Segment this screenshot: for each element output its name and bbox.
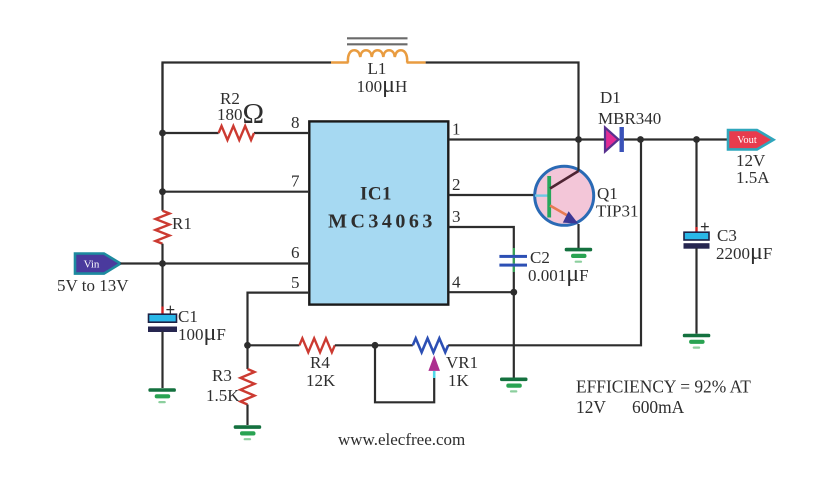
label 100uF <box>178 320 226 346</box>
capacitor C1 <box>149 300 177 332</box>
label D1 <box>600 88 621 107</box>
label 100uH <box>357 72 408 98</box>
label VR1 <box>446 353 478 372</box>
svg-text:5: 5 <box>291 273 300 292</box>
label C2 <box>530 248 550 267</box>
ground (C3) <box>683 334 711 349</box>
wire pin 7 <box>163 191 309 193</box>
svg-text:R3: R3 <box>212 366 232 385</box>
wire C2 to pin4 node <box>513 272 515 292</box>
svg-text:MC34063: MC34063 <box>328 211 436 233</box>
pin number 3 <box>452 207 461 226</box>
wire R1 to C1 <box>161 244 163 307</box>
wire pin4 node to ground <box>513 292 515 377</box>
svg-text:1.5A: 1.5A <box>736 168 770 187</box>
wire R3 to ground <box>246 405 248 426</box>
svg-text:IC1: IC1 <box>360 184 392 205</box>
potentiometer VR1 <box>413 338 448 352</box>
svg-text:4: 4 <box>452 273 461 292</box>
svg-text:100μH: 100μH <box>357 72 408 98</box>
svg-text:C3: C3 <box>717 226 737 245</box>
svg-text:1K: 1K <box>448 371 470 390</box>
svg-text:+: + <box>166 300 176 319</box>
svg-text:12V 600mA: 12V 600mA <box>576 397 685 417</box>
svg-text:8: 8 <box>291 113 300 132</box>
label MBR340 <box>598 109 661 128</box>
svg-text:D1: D1 <box>600 88 621 107</box>
wire pin 1 <box>449 138 605 140</box>
wire top rail right (inductor to Q1 collector node) <box>426 63 579 140</box>
label R2 <box>220 89 240 108</box>
pin number 8 <box>291 113 300 132</box>
svg-text:6: 6 <box>291 243 300 262</box>
label 12V <box>736 151 766 170</box>
label 12K <box>306 371 336 390</box>
wire wiper loop <box>375 345 434 402</box>
junction pin8/left rail <box>159 130 166 137</box>
wire C1 to ground <box>161 332 163 389</box>
label 1.5K <box>206 386 240 405</box>
svg-text:2: 2 <box>452 175 461 194</box>
svg-text:C1: C1 <box>178 307 198 326</box>
label IC1 <box>360 184 392 205</box>
junction R4/wiper <box>372 342 379 349</box>
junction feedback node <box>637 136 644 143</box>
note efficiency line2 <box>576 397 685 417</box>
resistor R3 <box>241 369 255 405</box>
svg-text:7: 7 <box>291 172 300 191</box>
pin number 7 <box>291 172 300 191</box>
IC U1 body <box>309 121 448 304</box>
junction pin7/left rail <box>159 188 166 195</box>
ground (C2 branch) <box>500 378 528 393</box>
label TIP31 <box>596 202 639 221</box>
wire collector <box>577 140 579 172</box>
junction Vin/left rail <box>159 260 166 267</box>
svg-text:Q1: Q1 <box>597 184 618 203</box>
svg-text:Vin: Vin <box>84 259 100 271</box>
note efficiency line1 <box>576 377 751 397</box>
input arrow Vin <box>75 254 121 274</box>
pin number 4 <box>452 273 461 292</box>
svg-text:TIP31: TIP31 <box>596 202 639 221</box>
svg-text:1.5K: 1.5K <box>206 386 240 405</box>
diode D1 <box>605 127 624 152</box>
label 1.5A <box>736 168 770 187</box>
wire pin 6 (Vin) <box>121 262 309 264</box>
resistor R1 <box>156 211 170 244</box>
label C3 <box>717 226 737 245</box>
wire pin 3 <box>449 227 514 248</box>
wire left vertical (top rail to R1) <box>161 63 163 211</box>
label 5V to 13V <box>57 276 129 295</box>
svg-text:12K: 12K <box>306 371 336 390</box>
pin number 6 <box>291 243 300 262</box>
wire pin 4 <box>449 291 514 293</box>
label 2200uF <box>716 239 772 265</box>
label 180ohm <box>217 98 264 130</box>
svg-text:www.elecfree.com: www.elecfree.com <box>338 430 465 449</box>
transistor Q1 <box>535 166 594 225</box>
ground (R3) <box>234 425 262 440</box>
output arrow Vout <box>728 130 774 149</box>
svg-text:R1: R1 <box>172 214 192 233</box>
pin number 5 <box>291 273 300 292</box>
wire junction to R3 <box>246 345 248 369</box>
watermark www.elecfree.com <box>338 430 465 449</box>
label L1 <box>368 59 387 78</box>
resistor R2 <box>219 126 254 140</box>
label 0.001uF <box>528 261 589 287</box>
ground (Q1) <box>565 248 593 263</box>
wire VR1 to output node <box>448 140 641 346</box>
label 1K <box>448 371 470 390</box>
wire pin 8 <box>163 132 309 134</box>
wire R4 left <box>248 344 300 346</box>
label R3 <box>212 366 232 385</box>
wire pin 5 <box>248 293 309 345</box>
label Q1 <box>597 184 618 203</box>
wire emitter to ground <box>577 224 579 248</box>
wire C3 to ground <box>695 248 697 334</box>
junction pin4/C2 <box>510 289 517 296</box>
pin number 1 <box>452 120 461 139</box>
label R4 <box>310 353 330 372</box>
wire C3 branch <box>695 140 697 228</box>
capacitor C2 <box>499 248 527 272</box>
svg-text:EFFICIENCY = 92% AT: EFFICIENCY = 92% AT <box>576 377 751 397</box>
svg-text:1: 1 <box>452 120 461 139</box>
wire D1 to Vout <box>624 138 728 140</box>
svg-text:R4: R4 <box>310 353 330 372</box>
junction pin1/collector <box>575 136 582 143</box>
label C1 <box>178 307 198 326</box>
VR1 wiper arrow <box>428 355 440 378</box>
svg-text:C2: C2 <box>530 248 550 267</box>
label R1 <box>172 214 192 233</box>
svg-text:MBR340: MBR340 <box>598 109 661 128</box>
pin number 2 <box>452 175 461 194</box>
svg-text:+: + <box>700 217 710 236</box>
resistor R4 <box>299 338 334 352</box>
inductor L1 <box>331 38 426 62</box>
svg-text:VR1: VR1 <box>446 353 478 372</box>
ground (C1) <box>148 388 176 403</box>
svg-text:Vout: Vout <box>737 135 757 146</box>
svg-text:3: 3 <box>452 207 461 226</box>
wire top rail left (junction to inductor) <box>163 63 332 192</box>
label MC34063 <box>328 211 436 233</box>
wire pin 2 <box>449 194 535 196</box>
junction C3 node <box>693 136 700 143</box>
junction R3/R4 <box>244 342 251 349</box>
capacitor C3 <box>684 217 710 248</box>
svg-text:5V to 13V: 5V to 13V <box>57 276 129 295</box>
wire R4 to VR1 <box>335 344 413 346</box>
